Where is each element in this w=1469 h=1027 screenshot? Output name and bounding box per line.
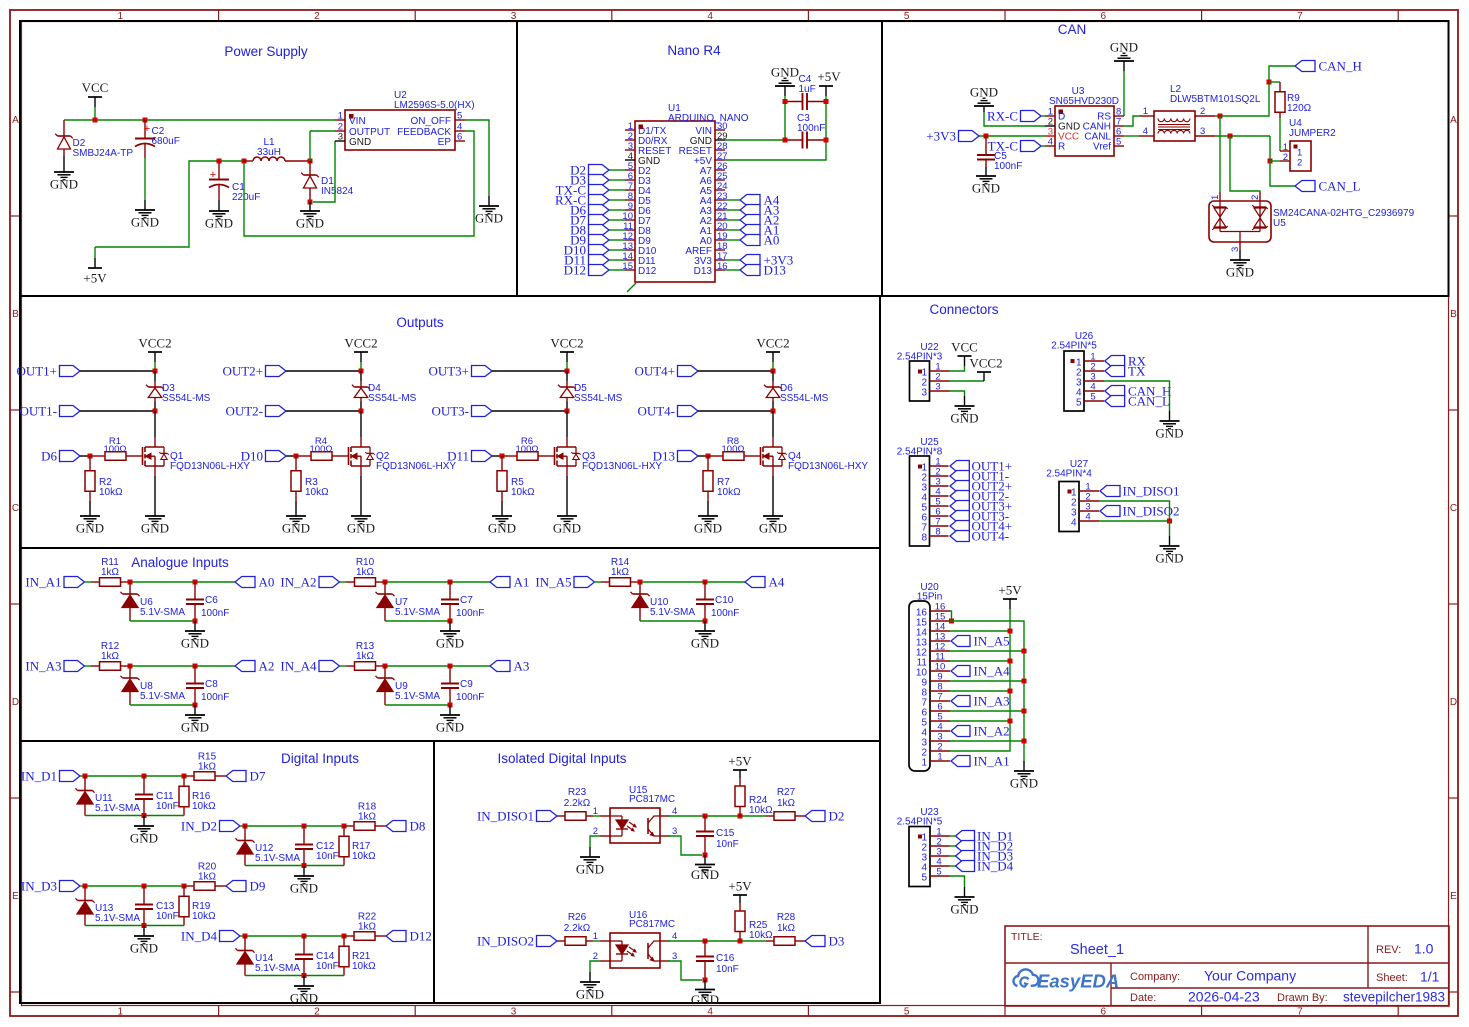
- svg-text:100nF: 100nF: [201, 692, 229, 703]
- svg-text:D9: D9: [250, 879, 266, 894]
- wire: [964, 396, 966, 406]
- svg-text:OUT2-: OUT2-: [225, 404, 263, 419]
- wire: [245, 825, 344, 827]
- svg-text:2: 2: [1200, 106, 1205, 117]
- net port IN_A3: [25, 659, 84, 674]
- svg-text:2: 2: [1250, 195, 1261, 200]
- junction: [1008, 659, 1013, 664]
- junction: [448, 619, 453, 624]
- svg-text:1kΩ: 1kΩ: [101, 567, 120, 578]
- wire: [488, 196, 490, 206]
- svg-text:A2: A2: [259, 659, 275, 674]
- wire OUT4- to Q4 drain: [772, 411, 774, 437]
- ground: [76, 516, 104, 536]
- ground: [1010, 771, 1038, 791]
- wire tvs to cap gnd: [385, 704, 450, 706]
- svg-text:+5V: +5V: [998, 583, 1022, 598]
- diode D6 SS54L-MS: [764, 371, 829, 404]
- net port A1: [740, 223, 779, 238]
- title block sheet name Sheet_1: [1070, 942, 1124, 958]
- title block REV label: [1376, 941, 1434, 957]
- junction: [128, 664, 133, 669]
- svg-text:D3: D3: [829, 934, 845, 949]
- junction: [771, 409, 776, 414]
- svg-text:1: 1: [1143, 106, 1148, 117]
- svg-text:C6: C6: [205, 595, 218, 606]
- wire: [144, 200, 146, 210]
- net port A2: [740, 213, 779, 228]
- power flag VCC2 (OUT1+ channel): [138, 336, 171, 353]
- capacitor C9 100nF: [441, 666, 484, 705]
- power flag VCC2 (OUT3+ channel): [550, 336, 583, 353]
- capacitor C4 1uF: [785, 74, 826, 110]
- svg-text:D7: D7: [250, 769, 266, 784]
- resistor R2 10k: [85, 456, 123, 501]
- wire: [772, 402, 774, 412]
- title Isolated Digital Inputs: [497, 751, 626, 766]
- wire D13: [698, 455, 708, 457]
- svg-text:2: 2: [1297, 158, 1302, 169]
- svg-text:2026-04-23: 2026-04-23: [1188, 989, 1260, 1005]
- junction: [565, 369, 570, 374]
- net port IN_DISO1 (U27): [1100, 484, 1180, 499]
- svg-text:R23: R23: [568, 787, 587, 798]
- svg-text:6: 6: [1101, 1007, 1107, 1018]
- svg-text:Power Supply: Power Supply: [224, 44, 308, 59]
- junction: [182, 884, 187, 889]
- junction: [193, 664, 198, 669]
- svg-text:CAN_L: CAN_L: [1128, 394, 1170, 409]
- ic U1 ARDUINO_NANO: [622, 103, 748, 292]
- wire D3 to U1: [609, 179, 625, 181]
- svg-text:D13: D13: [694, 266, 713, 277]
- wire U1 to +3V3: [725, 259, 740, 261]
- ground: [130, 936, 158, 956]
- net port IN_A1: [25, 575, 84, 590]
- svg-text:GND: GND: [349, 137, 371, 148]
- wire: [80, 885, 85, 887]
- wire +5V stub: [739, 770, 741, 778]
- svg-text:IN_DISO2: IN_DISO2: [1123, 504, 1180, 519]
- connector U22 2.54PIN*3: [897, 342, 950, 401]
- wire: [340, 581, 347, 583]
- svg-text:D12: D12: [410, 929, 432, 944]
- svg-text:100Ω: 100Ω: [310, 444, 333, 455]
- svg-text:3: 3: [1200, 126, 1205, 137]
- svg-text:PC817MC: PC817MC: [629, 919, 675, 930]
- wire U22 pin2 to VCC2: [950, 380, 985, 382]
- resistor R10 1k: [346, 557, 385, 586]
- wire D11 to U1: [609, 259, 625, 261]
- svg-text:100Ω: 100Ω: [722, 444, 745, 455]
- svg-text:IN_D3: IN_D3: [21, 879, 57, 894]
- junction: [783, 138, 788, 143]
- net port D6: [41, 449, 80, 464]
- junction: [359, 369, 364, 374]
- junction: [294, 454, 299, 459]
- connector U20 15Pin: [909, 582, 950, 771]
- wire D6: [80, 455, 90, 457]
- ground: [1110, 40, 1138, 62]
- svg-text:GND: GND: [771, 65, 799, 80]
- resistor R23 2.2k: [557, 787, 593, 820]
- svg-text:D: D: [1450, 697, 1457, 708]
- wire TX-C to U1: [609, 189, 625, 191]
- ground: [576, 857, 604, 877]
- svg-text:680uF: 680uF: [152, 136, 180, 147]
- wire OUT3- to Q3 drain: [566, 411, 568, 437]
- ground: [691, 865, 719, 883]
- wire OUT4-: [698, 410, 773, 412]
- junction: [448, 580, 453, 585]
- net port D8: [386, 819, 425, 834]
- junction: [182, 774, 187, 779]
- wire D9 to U1: [609, 239, 625, 241]
- capacitor C5 100nF: [977, 136, 1022, 172]
- svg-text:1: 1: [937, 752, 942, 763]
- svg-text:10kΩ: 10kΩ: [717, 487, 741, 498]
- junction: [771, 369, 776, 374]
- title block Sheet label: [1376, 969, 1440, 985]
- wire RX-C to U1: [609, 199, 625, 201]
- ground: [972, 176, 1000, 196]
- svg-text:Connectors: Connectors: [929, 302, 998, 317]
- tvs diode U12 5.1V-SMA: [236, 826, 301, 866]
- net port D13: [740, 263, 786, 278]
- net port D9: [570, 233, 609, 248]
- ground: [950, 897, 978, 917]
- connector U25 2.54PIN*8: [897, 437, 949, 546]
- svg-text:GND: GND: [950, 411, 978, 426]
- power flag +5V (U20): [998, 583, 1022, 600]
- wire +3V3 to VCC: [979, 135, 1045, 137]
- wire: [240, 825, 245, 827]
- ground: [759, 516, 787, 536]
- svg-text:1: 1: [118, 1007, 124, 1018]
- wire: [983, 106, 985, 112]
- svg-text:GND: GND: [694, 521, 722, 536]
- wire VCC2 stub: [154, 352, 156, 362]
- net port A0: [235, 575, 274, 590]
- ground: [970, 85, 998, 107]
- wire: [772, 362, 774, 371]
- junction: [383, 664, 388, 669]
- net port TX-C: [556, 183, 609, 198]
- ground: [181, 715, 209, 735]
- svg-text:5: 5: [1116, 137, 1121, 148]
- wire U23 to IN_D4: [950, 865, 956, 867]
- svg-text:D12: D12: [564, 263, 586, 278]
- net port IN_A4: [280, 659, 339, 674]
- net port D6: [570, 203, 609, 218]
- wire: [63, 156, 65, 172]
- junction: [638, 580, 643, 585]
- section box CAN: [882, 21, 1449, 296]
- wire bottom gnd net: [85, 815, 184, 817]
- svg-text:4: 4: [1143, 126, 1148, 137]
- wire opto output: [668, 940, 766, 942]
- junction: [1268, 159, 1273, 164]
- wire U1 to A1: [725, 229, 740, 231]
- svg-text:3: 3: [921, 388, 927, 399]
- wire OUT4+: [698, 370, 773, 372]
- net port IN_D1 (U23): [956, 829, 1014, 844]
- diode D2 SMBJ24A-TP: [55, 120, 133, 159]
- svg-text:1: 1: [338, 111, 343, 122]
- wire: [85, 775, 184, 777]
- wire: [1169, 536, 1171, 546]
- wire: [130, 581, 235, 583]
- svg-text:5.1V-SMA: 5.1V-SMA: [395, 691, 440, 702]
- junction: [93, 118, 98, 123]
- svg-text:CAN_H: CAN_H: [1319, 59, 1362, 74]
- tvs diode U9 5.1V-SMA: [376, 666, 441, 705]
- wire: [303, 866, 305, 877]
- wire U1 to D13: [725, 269, 740, 271]
- optocoupler U15 PC817MC: [593, 785, 678, 843]
- svg-text:+5V: +5V: [817, 69, 841, 84]
- svg-text:DLW5BTM101SQ2L: DLW5BTM101SQ2L: [1170, 94, 1261, 105]
- wire D2 to U1: [609, 169, 625, 171]
- svg-text:10nF: 10nF: [316, 961, 339, 972]
- net port IN_DISO2: [477, 934, 557, 949]
- net port A2: [235, 659, 274, 674]
- svg-text:IN_D1: IN_D1: [21, 769, 57, 784]
- svg-text:2.54PIN*5: 2.54PIN*5: [1051, 341, 1097, 352]
- common-mode choke L2 DLW5BTM101SQ2L: [1139, 84, 1261, 141]
- EasyEDA logo: [1013, 969, 1119, 991]
- junction: [193, 703, 198, 708]
- ground: [488, 516, 516, 536]
- net port RX (U26): [1105, 354, 1147, 369]
- wire to CAN_L: [1270, 161, 1295, 186]
- resistor R20 1k: [184, 862, 226, 891]
- wire opto pin3 to cap: [668, 836, 702, 855]
- svg-text:IN_A3: IN_A3: [974, 694, 1010, 709]
- diode D4 SS54L-MS: [352, 371, 417, 404]
- svg-text:2.2kΩ: 2.2kΩ: [564, 798, 591, 809]
- svg-text:LM2596S-5.0(HX): LM2596S-5.0(HX): [394, 100, 475, 111]
- svg-text:+5V: +5V: [728, 879, 752, 894]
- svg-text:Nano R4: Nano R4: [667, 43, 721, 58]
- svg-text:D13: D13: [764, 263, 786, 278]
- svg-text:C8: C8: [205, 679, 218, 690]
- svg-text:FQD13N06L-HXY: FQD13N06L-HXY: [170, 461, 250, 472]
- wire: [295, 501, 297, 516]
- wire: [1124, 135, 1139, 137]
- wire: [80, 775, 85, 777]
- svg-text:GND: GND: [130, 831, 158, 846]
- net VCC power flag: [82, 80, 109, 107]
- net port D11: [447, 449, 492, 464]
- svg-text:CAN_L: CAN_L: [1319, 179, 1361, 194]
- junction: [1022, 649, 1027, 654]
- wire VCC2 stub: [360, 352, 362, 362]
- wire: [1124, 116, 1139, 126]
- junction: [83, 774, 88, 779]
- wire U23 pin5 to gnd: [950, 876, 965, 887]
- svg-text:5.1V-SMA: 5.1V-SMA: [140, 607, 185, 618]
- net port OUT3+: [428, 364, 492, 379]
- wire: [1230, 136, 1260, 192]
- power flag +5V: [83, 247, 107, 286]
- junction: [308, 159, 313, 164]
- net port OUT4+ (U25): [950, 519, 1012, 534]
- wire +5V stub green: [825, 96, 827, 102]
- wire U20 to gnd rail: [950, 680, 1024, 682]
- svg-text:Outputs: Outputs: [396, 315, 444, 330]
- svg-text:1: 1: [921, 758, 927, 769]
- wire: [825, 102, 827, 141]
- junction: [783, 99, 788, 104]
- junction: [565, 409, 570, 414]
- wire: [595, 581, 602, 583]
- diode D5 SS54L-MS: [558, 371, 623, 404]
- wire: [244, 131, 474, 236]
- junction: [448, 664, 453, 669]
- title Outputs: [396, 315, 444, 330]
- net port IN_A2: [280, 575, 339, 590]
- svg-text:A4: A4: [769, 575, 785, 590]
- svg-text:GND: GND: [181, 636, 209, 651]
- svg-text:GND: GND: [282, 521, 310, 536]
- wire: [704, 980, 706, 990]
- resistor R11 1k: [91, 557, 130, 586]
- ground: [290, 986, 318, 1006]
- svg-text:+5V: +5V: [83, 271, 107, 286]
- wire VCC2 stub: [566, 352, 568, 362]
- wire: [1123, 61, 1125, 71]
- wire: [154, 362, 156, 371]
- svg-text:+: +: [210, 169, 216, 181]
- net port IN_DISO1: [477, 809, 557, 824]
- wire U20 to +5V rail: [950, 630, 1010, 632]
- wire: [784, 102, 786, 141]
- wire opto pin2 to gnd: [590, 836, 600, 847]
- junction: [153, 369, 158, 374]
- capacitor C8 100nF: [186, 666, 229, 705]
- wire: [89, 501, 91, 516]
- ground: [691, 990, 719, 1008]
- net port A3: [740, 203, 779, 218]
- svg-text:A: A: [1450, 115, 1457, 126]
- svg-text:1kΩ: 1kΩ: [198, 762, 217, 773]
- svg-text:1kΩ: 1kΩ: [356, 651, 375, 662]
- wire Q4 source to gnd: [772, 476, 774, 516]
- junction: [703, 939, 708, 944]
- power flag VCC2 (OUT4+ channel): [756, 336, 789, 353]
- svg-text:REV:: REV:: [1376, 944, 1401, 956]
- resistor R21 10k: [339, 936, 376, 976]
- transistor Q3 FQD13N06L-HXY: [549, 437, 662, 476]
- capacitor C1 220uF: [209, 161, 260, 203]
- svg-text:Sheet_1: Sheet_1: [1070, 942, 1124, 958]
- svg-text:FQD13N06L-HXY: FQD13N06L-HXY: [582, 461, 662, 472]
- svg-text:5: 5: [1090, 392, 1095, 403]
- net port IN_D2 (U23): [956, 839, 1014, 854]
- wire OUT1-: [80, 410, 155, 412]
- svg-text:4: 4: [707, 1007, 713, 1018]
- wire OUT2+: [286, 370, 361, 372]
- svg-text:1: 1: [593, 806, 598, 817]
- resistor R25 10k: [735, 903, 773, 941]
- svg-text:Analogue Inputs: Analogue Inputs: [131, 555, 229, 570]
- power flag +5V (IN_DISO2): [728, 879, 752, 896]
- svg-text:5.1V-SMA: 5.1V-SMA: [395, 607, 440, 618]
- svg-text:C7: C7: [460, 595, 473, 606]
- svg-text:1: 1: [1210, 195, 1221, 200]
- resistor R26 2.2k: [557, 912, 593, 945]
- section box Digital Inputs: [20, 741, 434, 1003]
- svg-text:GND: GND: [131, 215, 159, 230]
- svg-text:Sheet:: Sheet:: [1376, 972, 1408, 984]
- inductor L1 33uH: [244, 137, 310, 161]
- junction: [143, 118, 148, 123]
- wire: [704, 855, 706, 865]
- svg-text:VCC2: VCC2: [969, 356, 1002, 371]
- net port IN_D1: [21, 769, 80, 784]
- ground: [347, 516, 375, 536]
- wire: [1279, 118, 1281, 151]
- junction: [738, 814, 743, 819]
- wire D8 to U1: [609, 229, 625, 231]
- wire: [589, 847, 591, 857]
- svg-text:CAN: CAN: [1058, 22, 1087, 37]
- svg-text:D: D: [12, 697, 19, 708]
- junction: [193, 619, 198, 624]
- wire: [130, 665, 235, 667]
- wire +5V stub: [739, 895, 741, 903]
- net port D10: [241, 449, 286, 464]
- wire U1 to A0: [725, 239, 740, 241]
- junction: [703, 978, 708, 983]
- svg-text:+3V3: +3V3: [926, 129, 956, 144]
- svg-text:OUT3+: OUT3+: [428, 364, 469, 379]
- net port OUT3- (U25): [950, 509, 1009, 524]
- svg-text:GND: GND: [1226, 265, 1254, 280]
- junction: [824, 138, 829, 143]
- wire VCC2 stub: [772, 352, 774, 362]
- svg-text:ON_OFF: ON_OFF: [410, 116, 451, 127]
- ground: [181, 631, 209, 651]
- ic U3 SN65HVD230D: [1045, 86, 1124, 156]
- wire tvs to cap gnd: [130, 620, 195, 622]
- resistor R16 10k: [179, 776, 216, 816]
- net port OUT2+ (U25): [950, 479, 1012, 494]
- wire Q3 source to gnd: [566, 476, 568, 516]
- svg-text:100nF: 100nF: [797, 123, 825, 134]
- svg-text:Date:: Date:: [1130, 992, 1156, 1004]
- svg-text:RX-C: RX-C: [987, 109, 1018, 124]
- svg-text:IN_A2: IN_A2: [280, 575, 316, 590]
- title Nano R4: [667, 43, 721, 58]
- svg-text:IN_DISO1: IN_DISO1: [477, 809, 534, 824]
- net port A1: [490, 575, 529, 590]
- connector U23 2.54PIN*5: [897, 807, 950, 887]
- net port OUT3+ (U25): [950, 499, 1012, 514]
- resistor R14 1k: [601, 557, 640, 586]
- svg-text:2: 2: [1283, 152, 1288, 163]
- wire VCC stub: [964, 356, 966, 366]
- junction: [448, 703, 453, 708]
- wire U27 pin2 to gnd: [1099, 501, 1170, 521]
- ground: [694, 516, 722, 536]
- svg-text:10kΩ: 10kΩ: [192, 911, 216, 922]
- junction: [1008, 719, 1013, 724]
- svg-text:100Ω: 100Ω: [104, 444, 127, 455]
- wire: [1041, 115, 1045, 117]
- svg-text:5.1V-SMA: 5.1V-SMA: [650, 607, 695, 618]
